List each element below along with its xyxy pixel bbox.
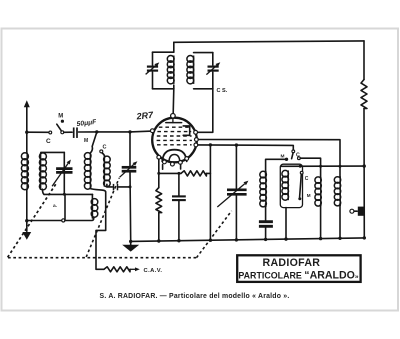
node screen drop bbox=[209, 143, 212, 146]
svg-text:C.A.V.: C.A.V. bbox=[144, 268, 163, 274]
tube grids dashed bbox=[157, 127, 192, 145]
svg-text:C: C bbox=[103, 145, 107, 151]
ground main bbox=[122, 240, 139, 252]
svg-text:a.: a. bbox=[53, 204, 57, 209]
coil L1 antenna primary bbox=[21, 132, 28, 231]
coil L2 tuned secondary bbox=[39, 152, 64, 194]
wire R2 box to bus bbox=[285, 208, 287, 240]
wire output bus y166 bbox=[281, 164, 366, 167]
coil L3 oscillator bbox=[84, 146, 105, 192]
coil L5 tickler box bbox=[65, 194, 98, 220]
coil T2 secondary bbox=[187, 53, 213, 89]
wire M to coil R1 bbox=[266, 159, 287, 171]
wire L2 bottom bbox=[44, 193, 93, 196]
coil T1 primary bbox=[153, 42, 175, 89]
wire cathode bbox=[157, 159, 181, 175]
coil L4 bbox=[104, 156, 111, 187]
wire anode riser bbox=[198, 89, 213, 133]
tube U1 envelope bbox=[152, 118, 197, 163]
wire ground bus left bbox=[27, 218, 94, 222]
svg-text:C S.: C S. bbox=[217, 88, 228, 94]
wire T1 to top cap bbox=[172, 89, 175, 113]
tube pins bbox=[151, 129, 199, 166]
wire gang dashed diag1 bbox=[8, 184, 57, 258]
node switch2 junction bbox=[95, 130, 98, 133]
wire L1 screen line bbox=[198, 140, 340, 177]
switch inside box bbox=[298, 171, 311, 200]
resistor R-rail bbox=[361, 80, 367, 109]
wire to varcap2 node bbox=[97, 130, 132, 133]
coil R3 bbox=[315, 177, 321, 239]
switch contact C bbox=[46, 131, 52, 145]
capacitor padder bbox=[107, 184, 132, 190]
ground antenna coil bbox=[22, 232, 31, 240]
tube U1 2R7 label bbox=[135, 110, 154, 122]
wire gang dashed bus bbox=[8, 257, 197, 259]
wire L2 line bbox=[198, 145, 293, 150]
wire right rail upper bbox=[363, 41, 365, 80]
switch C right contact bbox=[296, 153, 321, 177]
wire B+ top rail bbox=[174, 41, 364, 42]
wire screen drop bbox=[209, 145, 211, 240]
wire antenna to switch bbox=[27, 131, 49, 133]
svg-text:2R7: 2R7 bbox=[135, 110, 154, 122]
wire gang dashed diag3 bbox=[197, 211, 232, 258]
wire bottom bus bbox=[131, 238, 365, 242]
tube filament stubs bbox=[163, 164, 181, 169]
switch blade M bbox=[57, 114, 64, 134]
svg-text:C: C bbox=[46, 138, 51, 145]
coil R1 bbox=[260, 171, 267, 221]
svg-text:M: M bbox=[58, 114, 63, 120]
variable capacitor CV3 bbox=[217, 145, 248, 240]
node ground bus left bbox=[25, 219, 28, 222]
switch band contact C bbox=[100, 145, 107, 157]
trimmer CT1 bbox=[146, 52, 160, 89]
tube plate bracket bbox=[183, 126, 190, 135]
switch M right bbox=[281, 150, 295, 161]
svg-text:S. A. RADIOFAR. — Particolare: S. A. RADIOFAR. — Particolare del modell… bbox=[100, 293, 290, 300]
tube cathode bbox=[162, 150, 187, 162]
trimmer CS bbox=[206, 53, 227, 94]
node varcap3 drop bbox=[235, 143, 238, 146]
wire gang dashed diag2 bbox=[86, 178, 119, 257]
label title box RADIOFAR bbox=[237, 255, 360, 282]
node bus junctions bbox=[157, 236, 366, 243]
svg-text:M: M bbox=[84, 138, 88, 144]
tube top cap pin bbox=[171, 114, 176, 119]
switch band M bbox=[84, 133, 97, 147]
svg-text:RADIOFAR: RADIOFAR bbox=[263, 257, 321, 269]
jack output bbox=[350, 207, 364, 216]
node antenna junction bbox=[25, 131, 28, 134]
coil R4 bbox=[334, 177, 340, 239]
wire to tube grid pin bbox=[130, 130, 152, 133]
capacitor 50uuF bbox=[64, 119, 98, 138]
resistor CAV bbox=[104, 267, 162, 274]
svg-text:C: C bbox=[305, 176, 309, 182]
wire L3 to CAV bbox=[96, 192, 106, 269]
tube control grid bar bbox=[166, 118, 182, 123]
svg-text:PARTICOLARE “ARALDO»: PARTICOLARE “ARALDO» bbox=[238, 269, 359, 281]
antenna bbox=[24, 100, 30, 132]
svg-text:M: M bbox=[307, 193, 311, 198]
variable capacitor CV2 bbox=[120, 132, 138, 242]
capacitor C-bias bbox=[172, 173, 186, 240]
svg-text:C: C bbox=[296, 153, 300, 159]
capacitor C-R1 bbox=[259, 222, 273, 240]
coil R2 box bbox=[280, 164, 302, 207]
label caption bbox=[100, 293, 290, 300]
wire right rail lower bbox=[363, 109, 365, 238]
variable capacitor CV1 bbox=[52, 152, 72, 194]
resistor R-grid horizontal bbox=[181, 171, 210, 176]
resistor R-bias bbox=[156, 173, 162, 241]
label B bbox=[53, 204, 57, 209]
